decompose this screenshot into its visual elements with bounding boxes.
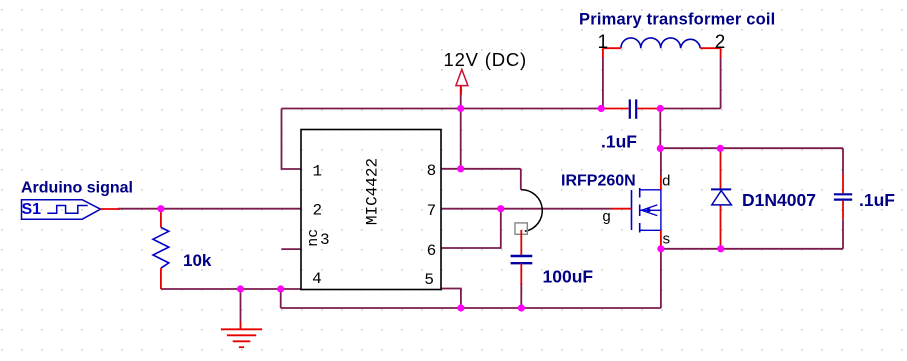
wire drop to bottom rail — [280, 289, 282, 308]
wire transformer left leg — [602, 58, 604, 109]
wire bus to pin8 riser — [460, 109, 462, 169]
svg-text:2: 2 — [715, 32, 726, 53]
label 100uF — [543, 266, 594, 286]
inductor pin stub 1 — [603, 48, 621, 58]
pin number 6 — [427, 242, 437, 260]
svg-text:g: g — [602, 209, 611, 226]
diode D1 D1N4007 — [711, 189, 731, 205]
label .1uF right — [859, 190, 895, 210]
junction at ground tap — [237, 285, 244, 292]
resistor R1 pin stub top — [160, 209, 162, 228]
svg-text:.1uF: .1uF — [601, 132, 637, 152]
pin label nc — [305, 229, 322, 247]
wire down to hop arc — [520, 169, 522, 190]
resistor R1 pin stub bottom — [160, 268, 162, 289]
wire right cap lower — [842, 219, 844, 249]
capacitor C3 pin stubs — [842, 174, 844, 219]
wire transformer right leg — [720, 58, 722, 109]
wire 12V symbol stub — [460, 86, 462, 109]
capacitor C1 100uF plates — [511, 256, 533, 263]
wire diode lower — [720, 205, 722, 248]
pin label d — [662, 174, 671, 191]
pin number 8 — [427, 162, 437, 180]
mosfet drain pin stub — [660, 176, 662, 190]
inductor pin stub 2 — [700, 48, 720, 58]
junction at pin5 on bottom rail — [457, 304, 464, 311]
capacitor C1 stub bottom — [520, 263, 522, 285]
wire drain rail y=148.4 — [660, 147, 843, 149]
svg-text:.1uF: .1uF — [859, 190, 895, 210]
IC U1 MIC4422 body — [301, 130, 441, 290]
svg-text:S1: S1 — [22, 201, 42, 218]
capacitor C3 .1uF right plates — [834, 194, 852, 199]
power symbol 12V — [456, 69, 468, 95]
resistor R1 10k zigzag — [153, 227, 169, 268]
wire pin5 drop — [441, 289, 461, 309]
pin number 2 — [312, 202, 322, 220]
junction at S1/resistor — [157, 205, 164, 212]
junction at cap left plate — [598, 105, 605, 112]
inductor L1 primary coil — [621, 38, 700, 48]
svg-text:d: d — [662, 174, 671, 191]
svg-text:D1N4007: D1N4007 — [742, 190, 816, 210]
wire pin7 to gate — [441, 208, 612, 210]
wire hop arc over pin7 net — [521, 190, 542, 232]
pin number 7 — [427, 202, 437, 220]
wire drain stub upper — [660, 148, 662, 176]
S1 pin stub — [101, 208, 121, 210]
pin number 5 — [424, 271, 434, 289]
junction at drain node — [657, 145, 664, 152]
capacitor C1 100uF stub top — [520, 230, 522, 255]
wire bus y=108.5 right of cap — [660, 108, 720, 110]
wire 100uF lower — [520, 283, 522, 308]
junction at pin7/pin6 — [497, 205, 504, 212]
svg-text:2: 2 — [312, 202, 322, 220]
svg-text:4: 4 — [312, 270, 322, 288]
svg-text:7: 7 — [427, 202, 437, 220]
wire pin3 nc stub — [281, 248, 301, 250]
wire right cap upper — [842, 148, 844, 174]
junction at pin8 — [457, 165, 464, 172]
pin label g — [602, 209, 611, 226]
label S1 — [22, 201, 42, 218]
wire ground stub — [240, 289, 242, 322]
label IRFP260N — [561, 172, 636, 189]
wire bottom rail y=308 — [281, 307, 661, 309]
mosfet gate pin stub — [612, 208, 632, 210]
pin number 3 — [320, 231, 330, 249]
label .1uF top — [601, 132, 637, 152]
terminal number 1 — [598, 32, 609, 53]
mosfet Q1 IRFP260N — [632, 188, 661, 233]
label 10k — [183, 251, 212, 270]
svg-text:6: 6 — [427, 242, 437, 260]
svg-text:1: 1 — [312, 163, 322, 181]
connection box marker — [515, 223, 527, 234]
svg-text:12V (DC): 12V (DC) — [444, 49, 528, 70]
label D1N4007 — [742, 190, 816, 210]
pin label s — [662, 232, 671, 249]
wire S1 to pin2 — [118, 208, 301, 210]
label Arduino signal — [21, 180, 133, 197]
pin number 1 — [312, 163, 322, 181]
junction at 100uF on bottom rail — [518, 304, 525, 311]
svg-text:IRFP260N: IRFP260N — [561, 172, 636, 189]
svg-text:10k: 10k — [183, 251, 212, 270]
wire source rail y=247.1 — [661, 248, 843, 250]
svg-text:100uF: 100uF — [543, 266, 594, 286]
junction at 12V stub — [457, 105, 464, 112]
wire source to bottom rail — [660, 249, 662, 308]
capacitor C2 stubs — [601, 108, 660, 110]
wire pin1 riser from bus — [282, 109, 302, 170]
wire pin6 riser — [441, 209, 501, 248]
junction at diode top — [717, 145, 724, 152]
junction at pin4 drop — [277, 285, 284, 292]
source S1 Arduino signal symbol — [22, 200, 101, 220]
junction at cap right plate — [657, 105, 664, 112]
svg-text:8: 8 — [427, 162, 437, 180]
label Primary transformer coil — [579, 11, 775, 29]
svg-text:MIC4422: MIC4422 — [364, 158, 382, 225]
wire cap junction down to drain node — [659, 109, 661, 149]
svg-text:Arduino signal: Arduino signal — [21, 180, 133, 197]
svg-text:Primary transformer coil: Primary transformer coil — [579, 11, 775, 29]
junction at source node — [657, 245, 664, 252]
wire pin8 horizontal — [441, 168, 521, 170]
pin number 4 — [312, 270, 322, 288]
wire ground rail y=289 — [161, 288, 301, 290]
wire 12V bus y=108.5 left segment — [282, 108, 602, 110]
svg-text:5: 5 — [424, 271, 434, 289]
capacitor C2 .1uF top plates — [630, 99, 636, 118]
junction at diode bottom — [717, 245, 724, 252]
ground symbol — [221, 322, 262, 348]
label MIC4422 — [364, 158, 382, 225]
svg-text:1: 1 — [598, 32, 609, 53]
svg-text:3: 3 — [320, 231, 330, 249]
mosfet source pin stub — [660, 230, 662, 249]
label 12V (DC) — [444, 49, 528, 70]
terminal number 2 — [715, 32, 726, 53]
wire diode upper — [720, 150, 722, 189]
